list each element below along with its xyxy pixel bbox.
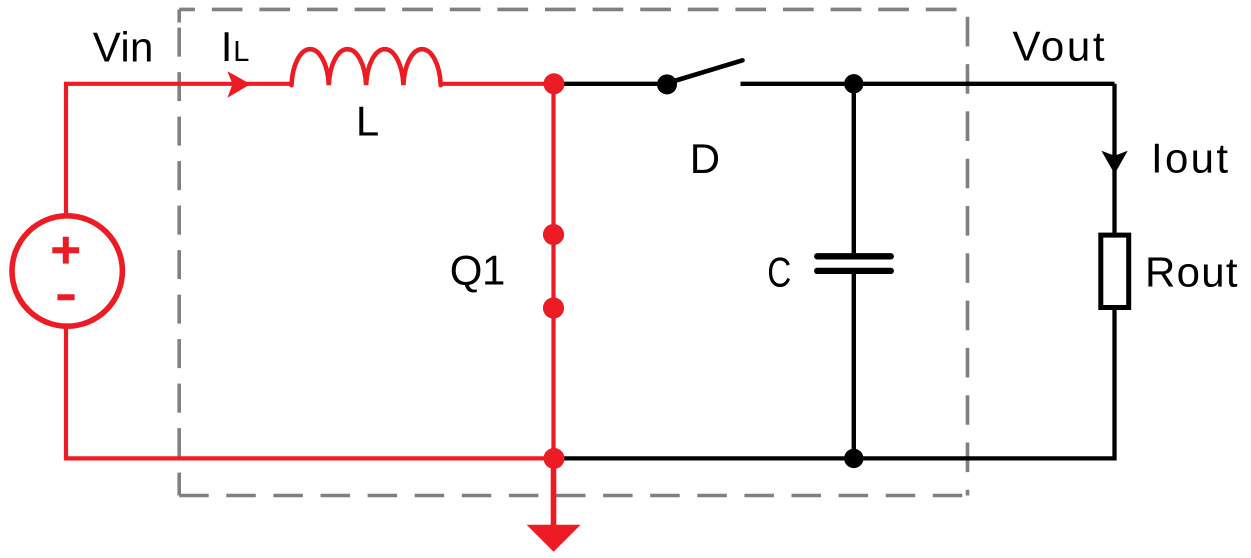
node D: Q1 / ground junction bbox=[544, 448, 565, 469]
wire: bottom rail black (right to node D) bbox=[554, 456, 1115, 460]
label IL bbox=[221, 23, 250, 70]
wire: switch to output corner (black top rail) bbox=[741, 82, 1115, 86]
label Rout bbox=[1145, 248, 1238, 295]
svg-text:Rout: Rout bbox=[1145, 248, 1238, 295]
svg-text:Iout: Iout bbox=[1151, 135, 1228, 182]
ground arrow bbox=[527, 458, 581, 551]
voltage source V1 bbox=[12, 216, 122, 326]
switch (diode) D bbox=[657, 60, 743, 94]
capacitor C bbox=[817, 84, 891, 459]
current arrow IL bbox=[227, 71, 250, 97]
label C bbox=[767, 249, 791, 296]
svg-text:Q1: Q1 bbox=[450, 247, 506, 294]
node B: capacitor top junction bbox=[844, 74, 863, 93]
label Vin bbox=[93, 24, 154, 71]
svg-text:Vout: Vout bbox=[1013, 23, 1105, 70]
label Iout bbox=[1151, 135, 1228, 182]
svg-text:Vin: Vin bbox=[93, 24, 154, 71]
label Q1 bbox=[450, 247, 506, 294]
label D bbox=[690, 135, 720, 182]
svg-text:L: L bbox=[233, 36, 249, 68]
node A: inductor / Q1 / diode junction bbox=[544, 73, 565, 94]
wire: top rail red (Vin to inductor) bbox=[66, 82, 293, 86]
svg-text:L: L bbox=[356, 97, 379, 144]
resistor Rout bbox=[1101, 235, 1129, 307]
svg-text:C: C bbox=[767, 249, 791, 296]
wire: node A to switch pivot (black) bbox=[554, 82, 667, 86]
node C: capacitor bottom junction bbox=[844, 449, 863, 468]
wire: bottom rail red (node D to source) bbox=[66, 327, 554, 459]
label L bbox=[356, 97, 379, 144]
current arrow Iout bbox=[1101, 151, 1127, 174]
wire: inductor to node A (red) bbox=[440, 82, 555, 86]
inductor L bbox=[292, 49, 441, 85]
converter boundary (dashed box) bbox=[179, 9, 967, 495]
svg-text:D: D bbox=[690, 135, 720, 182]
wire: output right branch upper (black) bbox=[1112, 84, 1116, 235]
svg-text:I: I bbox=[221, 23, 233, 70]
wire: source top to top rail (red) bbox=[66, 84, 68, 216]
transistor Q1 (switch branch, red vertical with contact dots) bbox=[543, 84, 564, 459]
wire: resistor bottom to bottom rail corner (black) bbox=[1112, 310, 1115, 458]
label Vout bbox=[1013, 23, 1105, 70]
